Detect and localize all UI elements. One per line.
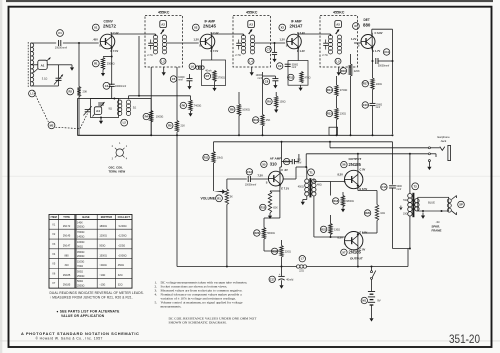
svg-text:2N147: 2N147 [290,23,303,28]
svg-text:10000: 10000 [256,75,263,77]
capacitor C7 plates [272,52,277,54]
svg-text:1100Ω: 1100Ω [77,261,84,264]
wire [313,196,315,237]
wire [409,216,411,249]
svg-text:100Ω: 100Ω [376,83,382,86]
ground [273,84,277,89]
ground [427,165,431,171]
svg-text:mmf: mmf [178,80,183,82]
wire [298,154,300,162]
wire [378,60,393,62]
coil designator L4 [248,58,254,64]
transistor X3 2N147 [287,33,302,51]
svg-text:455KC: 455KC [246,11,258,15]
resistor R20 [364,210,370,216]
svg-text:1200Ω: 1200Ω [99,235,107,238]
choke 40mh [196,66,204,69]
wire [306,167,308,179]
svg-text:1.2V: 1.2V [280,38,286,42]
wire [226,179,228,189]
svg-text:COLLECT: COLLECT [118,215,131,219]
wire [371,279,373,291]
svg-text:L2: L2 [123,121,127,125]
ground [188,111,192,117]
svg-text:R19: R19 [272,249,277,253]
svg-text:450Ω: 450Ω [118,264,124,267]
svg-text:Jack: Jack [441,139,447,143]
svg-text:3.1Ω: 3.1Ω [42,76,48,80]
svg-text:R13: R13 [288,75,293,79]
svg-text:.4Ω: .4Ω [436,221,440,224]
svg-text:2500Ω: 2500Ω [77,285,85,288]
svg-text:10000mmf: 10000mmf [245,183,257,186]
oscillator tuning capacitor C3 [83,106,91,115]
wire [282,161,293,163]
wire [357,154,359,173]
ground [162,71,166,76]
wire [279,191,281,218]
wire [281,257,283,267]
svg-text:4.: 4. [155,292,158,296]
svg-text:10000: 10000 [178,77,185,79]
ground [272,58,276,63]
svg-text:130Ω: 130Ω [340,113,346,116]
svg-text:↑440Ω: ↑440Ω [99,264,106,267]
wire [274,43,276,52]
svg-text:82K: 82K [273,207,278,210]
ground [250,71,254,76]
svg-text:AF AMP: AF AMP [270,156,282,160]
ground [268,213,272,219]
node junction [176,134,178,136]
transistor X4 880 [361,33,375,51]
wire [358,190,377,192]
volume potentiometer [225,189,228,205]
resistor R17 [362,81,368,87]
svg-text:1.2V: 1.2V [194,38,200,42]
oscillator trimmer box [91,99,119,118]
transformer T1 secondary [312,179,316,196]
wire [372,28,393,30]
svg-text:mmf: mmf [297,162,302,165]
wire [329,142,331,148]
svg-text:130Ω: 130Ω [334,228,340,231]
node junction [372,60,374,62]
wire [274,55,276,58]
svg-text:OUTPUT: OUTPUT [349,157,362,161]
wire [243,34,245,36]
adjustment A5 [335,21,342,34]
capacitor C1 [57,30,64,37]
node junction [409,248,411,250]
svg-text:C9: C9 [278,64,282,68]
capacitor C4 [103,82,110,89]
wire [393,248,411,250]
oscillator coil L2 primary [118,100,122,116]
wire [362,232,377,234]
jack spring contact [440,147,445,151]
node junction [262,134,264,136]
wire [111,86,113,98]
wire [376,191,378,205]
svg-text:2N185: 2N185 [63,274,71,277]
wire [280,166,282,168]
svg-text:455KC: 455KC [158,11,170,15]
svg-text:↑1200Ω: ↑1200Ω [118,235,127,238]
svg-text:40mh: 40mh [205,69,212,72]
wire [274,76,276,79]
node junction [226,266,228,268]
speaker leads box [418,197,449,211]
wire [263,75,276,77]
svg-text:1000Ω: 1000Ω [77,241,85,244]
ground [337,71,341,76]
switch contact [371,277,373,279]
wire [392,188,394,249]
svg-text:ITEM: ITEM [51,215,57,219]
wire [428,162,430,165]
antenna coil L1 label [29,90,36,97]
node junction [350,134,352,136]
svg-text:2600Ω: 2600Ω [77,255,85,258]
transformer T2 core [412,193,414,217]
svg-text:M2: M2 [50,123,54,127]
capacitor C14 plates [389,186,396,188]
jack contact [428,147,430,149]
svg-text:OUTPUT: OUTPUT [350,256,363,260]
capacitor C8 plates [272,79,278,81]
svg-text:T2: T2 [414,184,418,188]
wire [128,96,130,99]
svg-text:C5: C5 [172,77,176,81]
resistor R6 [180,102,186,108]
svg-text:X6: X6 [342,163,346,167]
svg-text:C 0V: C 0V [360,168,366,172]
resistor R13 [288,74,294,80]
svg-text:500Ω: 500Ω [77,270,83,273]
wire [31,64,38,66]
svg-text:.45V: .45V [93,38,99,42]
wire [281,267,283,277]
svg-text:TYPE: TYPE [63,215,70,219]
svg-text:15K: 15K [266,119,271,122]
svg-text:L7: L7 [301,257,305,261]
svg-text:mmf: mmf [258,78,263,80]
wire [58,65,60,75]
svg-text:measurements.: measurements. [161,304,182,308]
transistor X4 designator [353,23,360,30]
wire [357,187,359,191]
wire [255,42,285,44]
ground [369,316,373,322]
wire [264,250,282,252]
emitter network box [288,61,308,86]
transistor X6 designator [341,161,347,167]
svg-text:2.7Ω: 2.7Ω [147,54,152,57]
wire [262,126,264,135]
wire [78,43,80,87]
svg-text:C7: C7 [267,48,271,52]
node junction [372,134,374,136]
wire [270,190,280,192]
svg-text:B: B [266,180,268,184]
resistor R9 [266,98,272,104]
svg-text:R7: R7 [206,74,210,78]
resistor R7 [204,73,210,79]
transistor X2 2N145 [200,33,215,51]
resistor R22 [254,230,260,236]
node junction [392,134,394,136]
svg-text:8.2V: 8.2V [338,235,344,239]
svg-text:7400Ω: 7400Ω [194,105,202,108]
IF tuning capacitor [148,40,153,50]
wire [58,75,60,79]
svg-text:C17: C17 [270,277,275,281]
capacitor C5 plates [187,79,193,81]
svg-text:R17: R17 [363,82,368,86]
wire [155,34,157,36]
svg-text:351-20: 351-20 [449,332,480,346]
coil designator L3 [160,58,166,64]
node junction [100,117,102,119]
svg-text:T1: T1 [309,170,313,174]
svg-text:R9: R9 [267,100,271,104]
wire [31,85,59,87]
svg-text:X3: X3 [281,26,285,30]
wire [167,42,199,44]
svg-text:E 7.1V: E 7.1V [281,187,289,191]
wire [274,81,276,84]
svg-text:2N185: 2N185 [349,162,362,167]
switch lever [372,271,376,278]
wire supply bus [214,141,393,143]
svg-text:C .6V: C .6V [281,168,288,172]
wire [63,42,99,44]
svg-text:↑10Ω: ↑10Ω [99,274,105,277]
wire [281,280,283,283]
wire [357,248,359,267]
wire [103,56,112,58]
svg-text:B: B [286,43,288,47]
battery M1 designator [361,297,367,303]
transistor voltage table frame [49,215,132,289]
svg-text:7.2V: 7.2V [258,173,264,177]
svg-text:X2: X2 [194,26,198,30]
choke L7 designator [299,256,305,262]
capacitor C5 [170,76,176,82]
IF secondary coil [337,35,341,54]
IF secondary coil [250,35,254,54]
transistor X2 designator [192,24,199,31]
ground [99,118,103,125]
wire [263,218,265,228]
resistor R16 [340,68,346,74]
svg-text:A4: A4 [96,109,100,113]
jack contact [428,160,430,162]
svg-text:22Ω: 22Ω [299,270,304,273]
svg-text:X5: X5 [262,162,266,166]
wire AVC bus [78,134,393,136]
wire [238,116,240,136]
wire [305,154,307,167]
wire [58,80,60,86]
node junction [238,134,240,136]
svg-text:3Ω: 3Ω [133,106,136,110]
notes list [155,281,248,309]
node junction [336,134,338,136]
svg-text:R11: R11 [204,156,209,160]
svg-text:R22: R22 [254,231,259,235]
svg-text:1000Ω: 1000Ω [242,109,250,112]
wire [111,49,113,57]
wire [47,64,58,66]
ground [187,85,191,90]
node junction [281,141,283,143]
svg-text:● SEE PARTS LIST FOR ALTERNATE: ● SEE PARTS LIST FOR ALTERNATE [57,310,121,314]
svg-text:10000: 10000 [376,104,383,106]
resistor R18 [333,198,339,204]
svg-text:C 7.4V: C 7.4V [211,31,219,35]
wire [279,167,281,172]
wire [314,181,345,183]
IF primary coil [328,35,332,54]
node junction [329,141,331,143]
wire [138,36,140,96]
svg-text:SP: SP [459,203,463,207]
svg-text:20K: 20K [83,90,88,94]
svg-text:220Ω: 220Ω [285,250,291,253]
ground [274,108,278,113]
svg-text:C8: C8 [265,80,269,84]
transistor X7 2N185 [345,232,363,250]
wire [139,95,191,97]
svg-text:↑1900Ω: ↑1900Ω [118,254,127,257]
node junction [305,166,307,168]
speaker cone [452,196,457,200]
wire long vertical [176,132,178,267]
svg-text:DUAL READINGS INDICATE REVERSA: DUAL READINGS INDICATE REVERSAL OF METER… [50,291,144,295]
wire [262,72,264,115]
resistor R14 [326,87,332,93]
transformer T1 core [309,178,311,197]
svg-text:L4: L4 [249,59,253,63]
svg-text:R4: R4 [145,115,149,119]
svg-text:R5: R5 [168,124,172,128]
speaker SP1 designator [458,201,465,208]
svg-text:48Ω: 48Ω [317,184,322,187]
transistor X1 designator [92,24,99,31]
svg-text:500Ω: 500Ω [99,244,105,247]
svg-text:R18: R18 [333,199,338,203]
ground [299,85,303,91]
svg-text:50000: 50000 [292,64,299,66]
wire [78,97,80,136]
IF transformer can T-IF1 [145,16,183,68]
wire [330,182,332,196]
switch contact [371,271,373,273]
wire [190,96,192,100]
wire [330,235,332,238]
wire [283,178,296,180]
wire [212,33,244,35]
wire [150,122,152,135]
svg-text:mmf: mmf [292,67,297,69]
wire [251,67,253,71]
svg-text:140K: 140K [77,221,83,224]
wire output feed [306,153,428,155]
svg-text:32Ω: 32Ω [118,274,123,277]
svg-text:220K: 220K [354,70,360,73]
svg-text:2N147: 2N147 [63,244,71,247]
wire [371,29,373,34]
wire [336,96,338,108]
svg-text:B: B [199,43,201,47]
svg-text:A5: A5 [336,22,340,26]
capacitor C9 plates [285,64,291,66]
wire [376,221,378,234]
svg-text:10kΩ: 10kΩ [217,157,223,160]
transistor X3 designator [279,24,286,31]
svg-text:2N172: 2N172 [63,225,71,228]
oscillator coil L2 secondary [126,100,130,116]
wire [264,217,280,219]
svg-text:R20: R20 [365,211,370,215]
svg-text:R2: R2 [68,90,72,94]
emitter network box [202,60,226,86]
tuning gang dashed link [55,127,79,128]
capacitor C13 plates [248,176,250,182]
oscillator padder capacitor [98,103,104,105]
jack body [448,145,451,160]
capacitor C9 [277,63,283,69]
wire [298,33,330,35]
oscillator coil designator L2 [121,119,128,126]
wire [294,161,299,163]
variable tuning capacitor C2 [54,75,63,85]
svg-text:4500Ω: 4500Ω [77,251,85,254]
svg-text:2.7Ω: 2.7Ω [235,54,240,57]
svg-text:L3: L3 [161,59,165,63]
wire [303,199,307,201]
svg-text:32Ω: 32Ω [118,284,123,287]
capacitor C12 plates [292,159,294,164]
ground [101,70,105,77]
svg-text:B: B [344,241,346,245]
wire [336,120,338,136]
wire [129,95,140,97]
capacitor C8 [263,78,269,84]
wire [314,236,345,238]
svg-text:A1: A1 [41,64,45,68]
svg-text:R10: R10 [253,118,258,122]
scan edge left [0,0,2,353]
svg-text:880: 880 [363,22,371,27]
capacitor C17 [269,276,275,282]
IF tuning capacitor [323,40,328,50]
wire [372,61,374,78]
svg-text:450Ω: 450Ω [298,185,304,188]
svg-text:10000mmf: 10000mmf [55,45,68,49]
svg-text:5K: 5K [230,196,233,199]
svg-text:100Ω: 100Ω [280,101,286,104]
svg-text:A2: A2 [161,22,165,26]
wire [281,240,283,246]
node junction [111,56,113,58]
node junction [138,95,140,97]
resistor R15 [260,204,266,210]
wire [189,74,191,79]
capacitor C10 [362,102,368,108]
